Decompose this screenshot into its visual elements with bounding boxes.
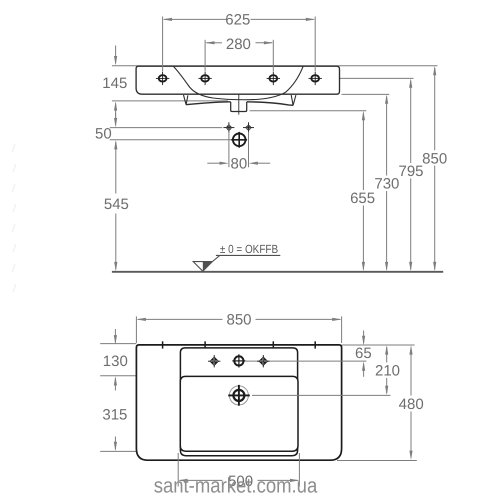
dimension 80	[207, 132, 270, 167]
dimension 795	[409, 78, 412, 271]
dimension 50	[114, 113, 117, 127]
svg-text:480: 480	[399, 396, 424, 413]
dimension 280	[205, 40, 273, 72]
dimension 730	[385, 94, 388, 271]
svg-text:625: 625	[225, 12, 250, 29]
apron shelf front edge left	[186, 102, 231, 105]
svg-text:± 0 = OKFFB: ± 0 = OKFFB	[220, 242, 278, 256]
dimension 850 (width, top view)	[136, 316, 341, 343]
faint left edge watermark dashes	[12, 144, 16, 292]
mounting hole 3	[267, 72, 280, 85]
mounting tick 1	[162, 341, 164, 348]
tap hole leader line	[246, 360, 367, 362]
top view main tap hole (circle cross)	[232, 354, 245, 367]
svg-text:545: 545	[104, 196, 129, 213]
svg-text:315: 315	[102, 407, 127, 424]
mounting hole 2	[198, 72, 211, 85]
mounting tick 4	[314, 341, 316, 348]
bowl outline	[180, 376, 298, 451]
top view side hole right (diamond)	[257, 355, 269, 367]
dimension 655	[362, 111, 365, 271]
mounting hole 4	[309, 72, 322, 85]
main tap hole (circle cross)	[231, 132, 247, 148]
svg-text:80: 80	[231, 155, 248, 172]
apron shelf left wedge	[184, 95, 188, 105]
extension line 315 bottom ref (bowl bottom)	[100, 450, 179, 452]
dimension 480	[409, 345, 412, 460]
top view side hole left (diamond)	[208, 355, 220, 367]
drain (top view)	[228, 385, 250, 406]
svg-text:50: 50	[95, 126, 112, 143]
drain leader line	[252, 394, 391, 396]
side tap hole left (diamond)	[223, 122, 234, 133]
dimension 315	[114, 437, 117, 452]
extension line 50 bottom / 545 top (tap hole level)	[110, 139, 233, 141]
dimension 65	[362, 331, 365, 377]
svg-text:850: 850	[422, 150, 447, 167]
svg-text:850: 850	[226, 312, 251, 329]
extension line 50 top (side hole level)	[110, 127, 223, 129]
washbasin body outline (front view)	[136, 66, 339, 94]
drain centre tick	[238, 94, 240, 115]
svg-text:280: 280	[226, 36, 251, 53]
svg-text:65: 65	[355, 345, 372, 362]
dimension 145	[114, 46, 117, 122]
side tap hole right (diamond)	[243, 122, 254, 133]
dimension 850 (height)	[433, 66, 436, 271]
deck plateau outline	[180, 348, 297, 456]
svg-text:210: 210	[375, 363, 400, 380]
dimension 625	[163, 17, 316, 72]
datum level symbol	[193, 255, 280, 271]
basin bowl silhouette curve	[173, 66, 303, 100]
mounting tick 3	[272, 341, 274, 348]
apron shelf right wedge	[291, 95, 296, 105]
basin outline (top view)	[136, 345, 341, 460]
mounting tick 2	[204, 341, 206, 348]
dimension 210	[385, 345, 388, 395]
svg-text:730: 730	[374, 176, 399, 193]
dimension 130	[114, 329, 117, 391]
construction line top of basin (145/850 ref)	[112, 65, 438, 67]
extension line 130 top ref	[100, 343, 136, 345]
extension line 655 ref (drain stub bottom)	[250, 110, 367, 112]
extension line 730 ref (basin bottom edge right)	[342, 93, 390, 95]
svg-text:sant-market.com.ua: sant-market.com.ua	[154, 475, 318, 498]
apron shelf front edge right	[247, 102, 293, 106]
drain outlet stub	[231, 102, 247, 112]
construction line lowest point of basin (145 bottom ref)	[112, 100, 228, 102]
extension line 480 bottom ref	[337, 460, 417, 462]
svg-text:795: 795	[398, 163, 423, 180]
dimension 500	[178, 453, 299, 487]
dimension 545	[114, 140, 117, 271]
mounting hole 1	[156, 72, 169, 85]
svg-text:145: 145	[102, 75, 127, 92]
svg-text:130: 130	[103, 353, 128, 370]
extension line 795 ref (mount hole level)	[322, 77, 414, 79]
svg-text:655: 655	[350, 190, 375, 207]
floor line	[112, 271, 443, 273]
extension line 65/210/480 top ref	[342, 344, 415, 346]
extension line 130 bottom / 315 top ref (bowl top)	[100, 375, 179, 377]
